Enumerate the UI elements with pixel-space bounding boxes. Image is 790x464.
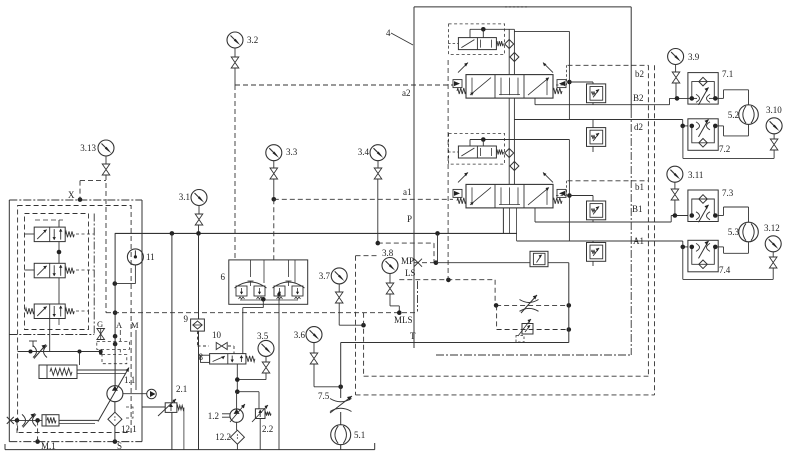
svg-text:A1: A1 (633, 236, 644, 246)
svg-text:MLS: MLS (394, 315, 413, 325)
svg-text:2.2: 2.2 (262, 424, 273, 434)
svg-text:M: M (131, 320, 139, 330)
svg-text:3.5: 3.5 (257, 331, 269, 341)
svg-text:3.8: 3.8 (382, 248, 394, 258)
svg-text:b1: b1 (635, 182, 644, 192)
svg-text:12.1: 12.1 (121, 424, 137, 434)
svg-text:7.3: 7.3 (722, 188, 734, 198)
svg-text:B1: B1 (632, 204, 643, 214)
svg-text:11: 11 (146, 252, 155, 262)
svg-text:3.1: 3.1 (179, 192, 190, 202)
svg-text:3.10: 3.10 (766, 105, 782, 115)
svg-text:3.4: 3.4 (358, 147, 370, 157)
svg-text:8: 8 (199, 352, 204, 362)
svg-text:X: X (68, 190, 75, 200)
svg-text:3.3: 3.3 (286, 147, 298, 157)
svg-text:1.1: 1.1 (124, 375, 135, 385)
svg-text:d2: d2 (634, 122, 643, 132)
svg-text:MP: MP (401, 256, 414, 266)
svg-text:3.13: 3.13 (80, 143, 96, 153)
svg-text:3.6: 3.6 (294, 330, 306, 340)
svg-text:4: 4 (386, 28, 391, 38)
svg-text:a1: a1 (403, 187, 412, 197)
svg-text:P: P (407, 214, 412, 224)
svg-text:7.5: 7.5 (318, 391, 330, 401)
svg-text:5.2: 5.2 (728, 110, 739, 120)
svg-text:a2: a2 (402, 88, 411, 98)
svg-text:7.1: 7.1 (722, 69, 733, 79)
svg-text:B2: B2 (633, 93, 644, 103)
svg-text:G: G (97, 319, 103, 329)
svg-text:T: T (410, 331, 416, 341)
svg-text:10: 10 (212, 330, 222, 340)
svg-text:3.2: 3.2 (247, 35, 258, 45)
svg-text:5.1: 5.1 (354, 430, 365, 440)
svg-text:A: A (116, 320, 123, 330)
svg-text:3.7: 3.7 (319, 271, 331, 281)
svg-text:9: 9 (184, 314, 189, 324)
svg-text:3.11: 3.11 (688, 170, 703, 180)
svg-text:6: 6 (221, 272, 226, 282)
svg-text:1.2: 1.2 (208, 411, 219, 421)
svg-text:7.4: 7.4 (719, 265, 731, 275)
svg-text:2.1: 2.1 (176, 384, 187, 394)
svg-text:b2: b2 (635, 69, 644, 79)
svg-text:7.2: 7.2 (719, 144, 730, 154)
svg-text:12.2: 12.2 (215, 432, 231, 442)
svg-text:3.9: 3.9 (688, 52, 700, 62)
svg-text:5.3: 5.3 (728, 227, 740, 237)
svg-text:3.12: 3.12 (764, 223, 780, 233)
